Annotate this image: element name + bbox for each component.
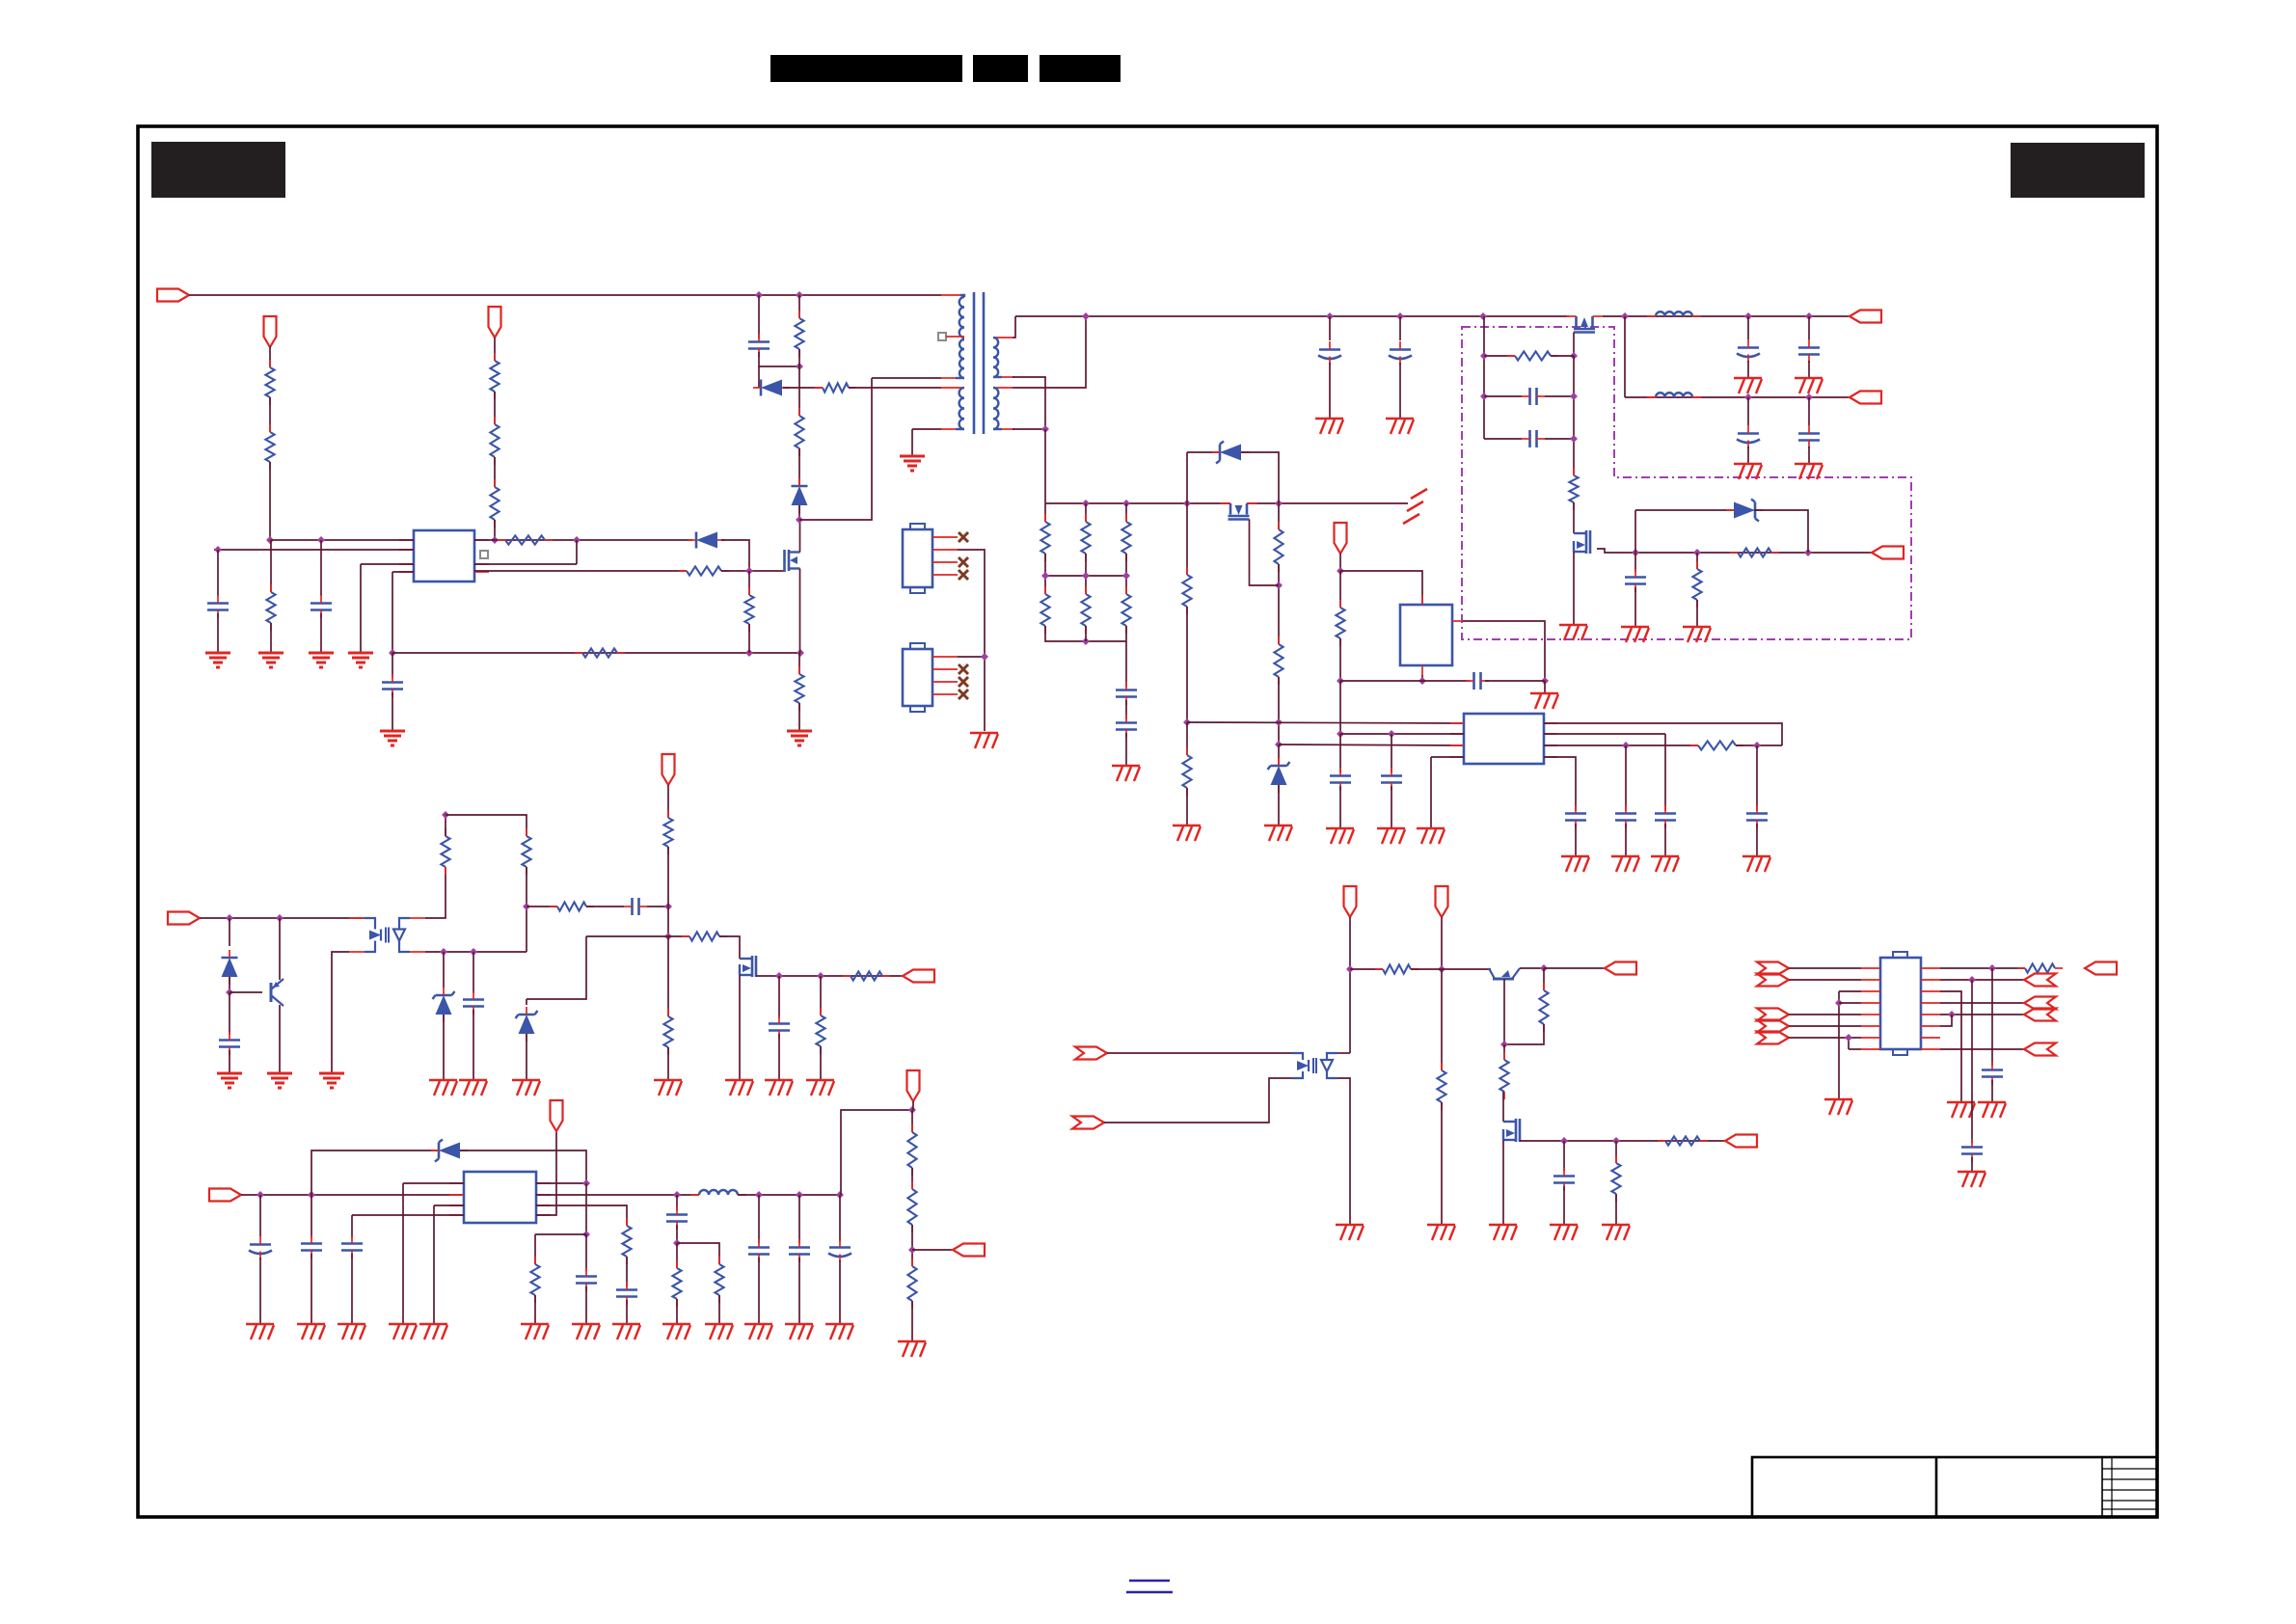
U6 pin3 bbox=[410, 951, 425, 953]
resistor R5 sense bbox=[490, 487, 499, 520]
wire bbox=[1441, 969, 1443, 1070]
ground (C4) bbox=[380, 730, 405, 733]
resistor R45 bbox=[689, 932, 719, 940]
junction bbox=[981, 653, 988, 661]
wire bbox=[1747, 397, 1749, 425]
wire U3 SW row bbox=[536, 1194, 699, 1196]
ground (R35) bbox=[662, 1323, 690, 1325]
junction bbox=[1082, 572, 1090, 580]
net flag (opto out) bbox=[903, 970, 934, 983]
net flag U5-7 bbox=[1757, 1032, 1789, 1044]
resistor R49 bbox=[1539, 990, 1548, 1024]
wire bbox=[269, 462, 271, 540]
junction bbox=[796, 363, 803, 370]
wire bbox=[1696, 553, 1698, 569]
junction bbox=[1082, 500, 1090, 507]
wire bbox=[1789, 1014, 1861, 1015]
optocoupler U7 bbox=[1292, 1053, 1303, 1060]
wire U1 GND row bbox=[392, 571, 414, 573]
transistor Q1 bbox=[270, 983, 273, 1002]
resistor R1 startup bbox=[265, 367, 274, 397]
wire bbox=[626, 1300, 628, 1324]
wire bbox=[576, 540, 578, 564]
resistor R30 bbox=[1274, 644, 1283, 677]
capacitor C22 bbox=[1330, 774, 1351, 777]
wire secondary tap to rail bbox=[1013, 316, 1086, 388]
junction bbox=[266, 536, 274, 544]
net flag (gate out 2) bbox=[1725, 1135, 1757, 1148]
ground (C30) bbox=[246, 1323, 274, 1325]
title block row line 5 bbox=[2102, 1508, 2157, 1510]
wire bbox=[1756, 745, 1758, 810]
wire bbox=[1125, 733, 1127, 766]
junction bbox=[745, 567, 753, 575]
top-left redacted box bbox=[151, 142, 285, 198]
resistor R36 bbox=[622, 1226, 631, 1257]
wire bbox=[311, 1195, 312, 1238]
wire bbox=[911, 1110, 913, 1132]
U5 right pin bbox=[1921, 1048, 1940, 1050]
junction bbox=[1622, 742, 1630, 749]
net flag (fb tap) bbox=[953, 1244, 985, 1257]
wire bbox=[668, 935, 689, 937]
ground (C45) bbox=[1550, 1224, 1578, 1226]
U3 right pin bbox=[536, 1194, 551, 1196]
ground (Z5) bbox=[429, 1079, 457, 1081]
capacitor C34 bbox=[666, 1213, 688, 1216]
wire Q0 gate bbox=[1250, 520, 1280, 586]
PWM controller U1 bbox=[414, 530, 474, 582]
J1 pin bbox=[932, 536, 958, 538]
wire bbox=[911, 1225, 913, 1266]
controller U4 bbox=[1464, 714, 1544, 764]
T1 pin 1 bbox=[941, 294, 960, 296]
wire bbox=[1391, 786, 1392, 828]
wire bbox=[1339, 681, 1341, 734]
junction bbox=[1500, 1041, 1508, 1048]
junction bbox=[1541, 677, 1549, 685]
junction bbox=[1988, 964, 1996, 972]
wire bbox=[392, 572, 393, 653]
wire bbox=[1573, 356, 1575, 475]
wire U2 out bbox=[1463, 621, 1545, 681]
diode D1 gate speedup bbox=[696, 532, 717, 549]
wire bbox=[229, 1050, 230, 1073]
wire Q4 drive node bbox=[1597, 549, 1872, 553]
wire bbox=[1339, 734, 1341, 772]
net flag U5-2 bbox=[1757, 974, 1789, 987]
ground (C23) bbox=[1377, 827, 1405, 829]
J1 bottom tab bbox=[910, 587, 925, 593]
wire VIN rail to transformer bbox=[189, 294, 941, 296]
wire bbox=[1615, 1141, 1617, 1163]
wire Q6 emitter bbox=[1520, 967, 1544, 969]
ground (C24) bbox=[1561, 855, 1589, 857]
junction bbox=[582, 1231, 590, 1238]
junction bbox=[1183, 718, 1191, 726]
J2 pin bbox=[932, 668, 958, 670]
sync rectifier MOSFET Q3 bbox=[1575, 316, 1578, 328]
wire bbox=[351, 1215, 353, 1238]
net flag U5 out3 bbox=[2024, 997, 2056, 1010]
wire U3 en flag bbox=[536, 1131, 556, 1215]
wire bbox=[270, 540, 272, 592]
wire bbox=[911, 1301, 913, 1341]
ground (C10) bbox=[1315, 418, 1343, 420]
wire bbox=[1503, 1044, 1505, 1060]
resistor R48 bbox=[1383, 964, 1411, 973]
ground (Z6) bbox=[512, 1079, 540, 1081]
J2 pin bbox=[932, 693, 958, 695]
wire bbox=[1839, 990, 1861, 992]
junction bbox=[1438, 965, 1445, 973]
ground (C25) bbox=[1611, 855, 1639, 857]
wire bbox=[1544, 681, 1546, 693]
wire U1 VCC row bbox=[271, 539, 414, 541]
wire bbox=[1013, 428, 1045, 430]
J1 pin bbox=[932, 549, 958, 551]
J2 pin bbox=[932, 656, 958, 658]
wire U6 cathode to gnd bbox=[332, 952, 349, 1073]
U5 left pin bbox=[1861, 979, 1880, 981]
wire U2 VCC bbox=[1340, 571, 1422, 605]
junction bbox=[1948, 1011, 1956, 1018]
resistor R47 bbox=[816, 1015, 824, 1046]
junction bbox=[1041, 572, 1049, 580]
zener diode Z2 bbox=[1734, 502, 1755, 519]
wire bbox=[1808, 361, 1810, 378]
junction bbox=[1744, 393, 1752, 401]
U5 left pin bbox=[1861, 1037, 1880, 1039]
wire U3 VIN row bbox=[241, 1194, 464, 1196]
wire secondary top to rail bbox=[1013, 316, 1015, 338]
wire Q7 out row bbox=[1520, 1140, 1725, 1142]
wire bbox=[667, 785, 669, 818]
junction bbox=[775, 972, 783, 980]
shunt regulator U2 bbox=[1400, 605, 1452, 665]
wire bbox=[1044, 503, 1046, 522]
wire Q1 emitter bbox=[279, 1005, 281, 1073]
U5 right pin bbox=[1921, 967, 1940, 969]
net flag (drv supply 2) bbox=[1436, 886, 1448, 917]
junction bbox=[1693, 549, 1701, 556]
junction bbox=[755, 291, 763, 299]
capacitor C40 bbox=[219, 1039, 240, 1042]
wire Q2 drain bbox=[799, 520, 801, 553]
junction bbox=[1396, 312, 1404, 320]
resistor R41 bbox=[522, 836, 530, 867]
ground (C26) bbox=[1651, 855, 1679, 857]
wire bbox=[259, 1195, 261, 1236]
wire bbox=[269, 397, 271, 432]
ground (C33) bbox=[572, 1323, 600, 1325]
wire bbox=[1339, 554, 1341, 571]
no-connect J2 pin2 bbox=[959, 664, 968, 674]
wire bbox=[1125, 626, 1127, 687]
junction bbox=[1805, 393, 1813, 401]
resistor R50 bbox=[1499, 1060, 1508, 1092]
wire feedback top bbox=[841, 1110, 912, 1195]
U3 left pin bbox=[449, 1204, 464, 1206]
resistor R8 gate drive bbox=[505, 535, 545, 544]
wire bbox=[1940, 991, 1961, 1102]
wire bbox=[320, 540, 322, 596]
junction bbox=[317, 536, 325, 544]
T1 W5 lead bbox=[993, 428, 1002, 430]
resistor R44 bbox=[663, 1016, 672, 1047]
wire bbox=[1044, 554, 1046, 594]
capacitor C27 bbox=[1746, 812, 1768, 815]
wire bbox=[647, 906, 668, 907]
wire U3 gnd row bbox=[434, 1204, 464, 1206]
wire VOUT2 row bbox=[1625, 396, 1850, 398]
capacitor C35 bbox=[616, 1288, 637, 1291]
wire bbox=[1329, 316, 1331, 340]
junction bbox=[1621, 312, 1629, 320]
net flag (buck input) bbox=[209, 1189, 241, 1202]
capacitor C11 bulk bbox=[1390, 348, 1411, 351]
T1 secondary winding W4 bbox=[993, 338, 998, 377]
wire to Q1 base bbox=[230, 991, 262, 993]
wire bbox=[446, 815, 527, 836]
wire bbox=[443, 952, 445, 988]
ground (U5) bbox=[1824, 1098, 1852, 1100]
U5 right pin bbox=[1921, 1014, 1940, 1015]
resistor R51 bbox=[1665, 1136, 1700, 1145]
wire bbox=[494, 520, 496, 540]
net flag (drv out) bbox=[1605, 962, 1636, 975]
wire bbox=[494, 338, 496, 361]
junction bbox=[1275, 741, 1283, 748]
net flag (buck vout) bbox=[907, 1070, 920, 1101]
wire bbox=[676, 1299, 678, 1324]
wire bbox=[1339, 571, 1341, 608]
U4 left pin bbox=[1450, 756, 1464, 758]
wire bbox=[1747, 361, 1749, 378]
wire U3 EN row bbox=[403, 1182, 464, 1184]
junction bbox=[836, 1191, 844, 1199]
wire U4 out2 bbox=[1544, 733, 1665, 735]
junction bbox=[1337, 567, 1344, 575]
ground (Q7) bbox=[1489, 1224, 1517, 1226]
wire +V rail bbox=[1603, 315, 1850, 317]
wire bbox=[798, 1258, 800, 1324]
wire bbox=[1502, 1092, 1504, 1122]
wire bbox=[798, 703, 800, 731]
wire bbox=[667, 1047, 669, 1080]
wire U4 fb row bbox=[1544, 744, 1698, 746]
wire bbox=[1940, 1048, 2024, 1050]
ground (C36) bbox=[744, 1323, 772, 1325]
ground (fb divider) bbox=[898, 1340, 926, 1342]
capacitor C37 bbox=[789, 1246, 810, 1249]
ground (C40) bbox=[217, 1072, 242, 1075]
wire snubber bottom bbox=[759, 352, 799, 366]
ground (C47) bbox=[1958, 1171, 1985, 1173]
J1 pin bbox=[932, 574, 958, 576]
wire comp row bbox=[527, 906, 557, 907]
wire bbox=[1736, 744, 1782, 746]
wire bbox=[586, 935, 668, 937]
capacitor C45 bbox=[1553, 1175, 1575, 1177]
junction bbox=[1388, 730, 1395, 738]
wire bbox=[1848, 1038, 1850, 1049]
ground (C2) bbox=[205, 652, 230, 655]
wire zener feed bbox=[311, 1150, 439, 1195]
wire bbox=[392, 653, 393, 678]
U1 pin GND bbox=[399, 571, 414, 573]
wire bbox=[1940, 979, 2024, 981]
wire U1 DRV row bbox=[474, 570, 687, 572]
no-connect J1 pin3 bbox=[959, 557, 968, 567]
wire bbox=[460, 1150, 586, 1183]
capacitor C31 bbox=[301, 1242, 322, 1245]
capacitor C30 bbox=[250, 1243, 271, 1246]
wire bbox=[1551, 355, 1574, 357]
footer link line 1 bbox=[1129, 1580, 1170, 1582]
wire Q6 base bbox=[1503, 979, 1505, 1044]
T1 W3 lead bbox=[956, 428, 964, 430]
U2 pin bottom bbox=[1421, 665, 1423, 675]
wire U6 collector bbox=[425, 867, 446, 918]
wire bbox=[1411, 968, 1491, 970]
junction bbox=[817, 972, 824, 980]
capacitor C24 bbox=[1565, 812, 1586, 815]
ground (C41) bbox=[459, 1079, 487, 1081]
capacitor C14 bbox=[1625, 576, 1646, 579]
U4 left pin bbox=[1450, 744, 1464, 746]
title block row line 1 bbox=[2102, 1468, 2157, 1470]
junction bbox=[226, 914, 233, 922]
wire bbox=[1664, 734, 1666, 810]
ground (sense) bbox=[787, 730, 812, 733]
wire bbox=[1991, 968, 1993, 1066]
wire bbox=[1545, 395, 1574, 397]
junction bbox=[1275, 718, 1283, 726]
resistor R23 bbox=[1121, 522, 1130, 554]
capacitor C41 bbox=[463, 998, 484, 1001]
wire bbox=[1484, 355, 1515, 357]
wire bbox=[443, 1015, 445, 1080]
capacitor C3 bbox=[311, 602, 332, 605]
ground (R20) bbox=[1683, 626, 1711, 628]
wire bbox=[320, 613, 322, 653]
resistor R34 bbox=[715, 1264, 723, 1295]
wire to D2 bbox=[758, 366, 760, 388]
wire bbox=[667, 936, 669, 1016]
wire bbox=[229, 992, 230, 1035]
ground (J pins) bbox=[970, 732, 998, 734]
wire bbox=[1563, 1186, 1565, 1225]
resistor R7 sense bbox=[582, 648, 617, 657]
capacitor C15 bbox=[1738, 346, 1759, 349]
U5 top tab bbox=[1893, 952, 1907, 958]
capacitor C25 bbox=[1615, 812, 1636, 815]
resistor R40 bbox=[441, 836, 449, 867]
wire bbox=[392, 692, 393, 731]
ground (C11) bbox=[1386, 418, 1414, 420]
wire bbox=[911, 1168, 913, 1189]
wire bbox=[912, 1101, 914, 1110]
resistor R52 bbox=[1611, 1163, 1620, 1194]
junction bbox=[1082, 312, 1090, 320]
ground (C35) bbox=[612, 1323, 640, 1325]
capacitor C38 bbox=[829, 1246, 851, 1249]
junction bbox=[1570, 392, 1578, 400]
net flag (U2 supply) bbox=[1335, 523, 1347, 554]
resistor R33 bbox=[530, 1264, 539, 1295]
junction bbox=[389, 649, 396, 657]
ground (U4 pin4) bbox=[1417, 827, 1445, 829]
wire to U4 pin3 bbox=[1279, 744, 1464, 745]
wire bbox=[912, 1249, 953, 1251]
resistor R37 fb bbox=[907, 1132, 916, 1168]
wire bbox=[1278, 785, 1280, 826]
wire bbox=[626, 1257, 628, 1286]
capacitor C20 bbox=[1116, 721, 1137, 724]
wire bbox=[1544, 967, 1605, 969]
wire U1 RT loop bbox=[474, 563, 577, 565]
wire bbox=[1085, 503, 1087, 522]
resistor R4 sense bbox=[490, 424, 499, 457]
net flag U5-6 bbox=[1757, 1020, 1789, 1033]
wire bbox=[1125, 503, 1127, 522]
title bar redacted 3 bbox=[1040, 55, 1121, 82]
wire bbox=[473, 1010, 474, 1080]
wire snubber cap leg bbox=[758, 295, 760, 338]
U5 right pin bbox=[1921, 979, 1940, 981]
junction bbox=[1275, 500, 1283, 507]
net flag (drv supply 1) bbox=[1344, 886, 1357, 917]
schematic frame bbox=[138, 126, 2157, 1517]
capacitor C18 bbox=[1798, 432, 1820, 435]
junction bbox=[1570, 435, 1578, 443]
wire bbox=[1337, 1052, 1350, 1054]
optocoupler U6 bbox=[365, 918, 375, 930]
U1 pin FB bbox=[399, 549, 414, 551]
capacitor C5 snubber bbox=[748, 340, 770, 343]
no-connect J2 pin3 bbox=[959, 677, 968, 687]
wire to SR node bbox=[1044, 429, 1046, 503]
ground (C22) bbox=[1326, 827, 1354, 829]
wire Q4 to ground bbox=[1573, 552, 1575, 625]
ground (R52) bbox=[1602, 1224, 1630, 1226]
capacitor C2 bbox=[207, 602, 229, 605]
capacitor C16 bbox=[1798, 346, 1820, 349]
wire bbox=[676, 1225, 678, 1243]
capacitor C33 bbox=[576, 1275, 597, 1278]
resistor R35 bbox=[672, 1268, 681, 1299]
wire bbox=[270, 623, 272, 653]
capacitor C21 bbox=[1472, 672, 1475, 690]
wire bbox=[1696, 600, 1698, 627]
wire Q5 source bbox=[739, 975, 741, 1080]
resistor R26 bbox=[1121, 594, 1130, 626]
junction bbox=[1805, 312, 1813, 320]
wire Q5 out row bbox=[756, 975, 903, 977]
net flag (opto2 in-) bbox=[1072, 1117, 1104, 1129]
wire W3 to ground bbox=[912, 428, 941, 430]
wire bbox=[535, 1233, 586, 1235]
wire bbox=[1625, 824, 1627, 856]
junction bbox=[1183, 500, 1191, 507]
junction bbox=[1337, 677, 1344, 685]
resistor R54 bbox=[2025, 963, 2055, 972]
resistor R14 aux bbox=[823, 383, 849, 392]
ground (U3) bbox=[419, 1323, 447, 1325]
wire bbox=[473, 952, 474, 993]
MOSFET Q7 bbox=[1503, 1121, 1516, 1123]
